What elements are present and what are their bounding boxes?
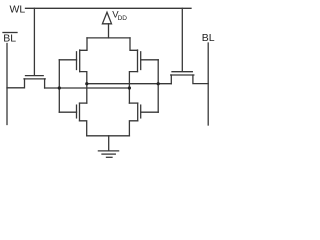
nmos N1 gate bar xyxy=(76,105,78,118)
wire P2 gate lead xyxy=(141,59,159,61)
wire BL bit line vertical xyxy=(207,43,209,125)
wire N2 source lead xyxy=(129,121,137,136)
wire N1 source lead xyxy=(80,121,87,136)
wire WL word line xyxy=(26,7,192,9)
wire N2 drain lead xyxy=(129,102,137,104)
pmos P2 channel bar xyxy=(137,50,139,72)
wire right access left lead xyxy=(170,75,172,84)
node BLB label with overline xyxy=(3,32,17,34)
wire P1 drain / left output vertical xyxy=(80,72,87,104)
wire BLB bit line vertical xyxy=(6,44,8,125)
pmos P1 gate bar xyxy=(76,52,78,70)
nmos N1 channel bar xyxy=(79,103,81,121)
svg-text:BL: BL xyxy=(202,32,215,44)
transistor right access channel bar xyxy=(171,74,194,76)
wire right gates vertical (P2/N2 gate net) xyxy=(157,60,159,112)
node BL label xyxy=(202,32,215,44)
junction dot QB-right output xyxy=(128,86,131,89)
wire N2 gate lead xyxy=(141,111,159,113)
wire ground tap xyxy=(108,136,110,151)
wire left gates vertical (P1/N1 gate net) xyxy=(58,60,60,112)
wire node Q upper cross-coupling line xyxy=(87,83,172,85)
pmos P1 channel bar xyxy=(79,50,81,72)
nmos N2 gate bar xyxy=(140,105,142,118)
node WL label xyxy=(10,4,26,16)
wire right access right lead to BL xyxy=(193,75,208,84)
wire P1 gate lead xyxy=(59,59,76,61)
wire left access left lead to BLB xyxy=(7,79,25,88)
transistor left access channel bar xyxy=(24,78,45,80)
wire left access right lead xyxy=(44,79,46,88)
junction dot QB-left gates xyxy=(58,86,61,89)
svg-text:DD: DD xyxy=(118,15,128,22)
wire right access gate drop from WL xyxy=(181,8,183,71)
pmos P2 gate bar xyxy=(140,52,142,70)
transistor left access gate bar xyxy=(26,75,44,77)
junction dot Q-right gates xyxy=(157,82,160,85)
wire N1 drain lead xyxy=(80,102,87,104)
wire left access gate drop from WL xyxy=(33,8,35,75)
svg-text:WL: WL xyxy=(10,4,26,16)
svg-text:BL: BL xyxy=(3,33,16,45)
junction dot Q-left output xyxy=(85,82,88,85)
node VDD label xyxy=(112,10,127,23)
nmos N2 channel bar xyxy=(137,103,139,121)
wire N1 gate lead xyxy=(59,111,76,113)
wire P1 source lead xyxy=(80,38,87,50)
wire P2 source lead xyxy=(130,38,138,50)
wire VDD rail xyxy=(87,37,130,39)
transistor right access gate bar xyxy=(172,71,192,73)
ground symbol bars xyxy=(98,151,118,157)
power VDD symbol triangle xyxy=(102,12,111,23)
wire P2 drain / right output vertical xyxy=(129,72,137,104)
wire ground rail xyxy=(87,135,130,137)
wire VDD stem xyxy=(108,24,110,38)
wire node QB lower cross-coupling line xyxy=(45,87,130,89)
